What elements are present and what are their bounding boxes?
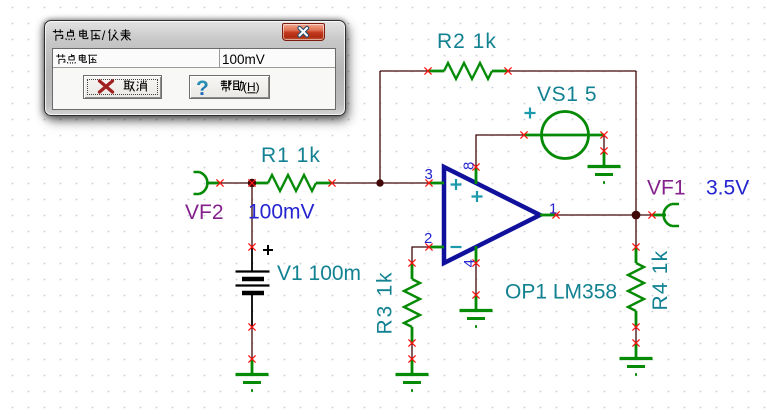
wire R4 to ground bbox=[635, 327, 637, 343]
op-amp U1 triangle bbox=[444, 167, 540, 263]
wire R3 to ground bbox=[411, 343, 413, 359]
svg-text:R3 1k: R3 1k bbox=[374, 271, 397, 335]
ground for VS1 bbox=[588, 151, 621, 183]
ground for V1 bbox=[236, 359, 269, 391]
probe VF1 bbox=[652, 204, 679, 226]
op-amp minus input mark bbox=[451, 246, 462, 248]
op-amp pin 3 stub bbox=[429, 182, 444, 185]
dialog content panel bbox=[52, 48, 336, 110]
svg-text:R1 1k: R1 1k bbox=[261, 144, 321, 167]
op-amp pin 8 stub bbox=[475, 167, 478, 184]
svg-text:R4 1k: R4 1k bbox=[649, 250, 672, 311]
wire op-amp pin 8 to VS1 bbox=[476, 135, 524, 167]
svg-text:VF1: VF1 bbox=[647, 177, 686, 200]
op-amp plus input mark bbox=[451, 179, 462, 190]
svg-text:3.5V: 3.5V bbox=[706, 177, 749, 200]
resistor R2 bbox=[428, 63, 508, 79]
wire node A down to V1 bbox=[251, 183, 253, 247]
junction node A bbox=[248, 179, 256, 187]
dialog table row bbox=[53, 49, 335, 68]
row label 节点电压 bbox=[56, 54, 65, 64]
svg-text:VS1 5: VS1 5 bbox=[537, 83, 597, 106]
help button 帮助(H) bbox=[189, 75, 270, 99]
ground for R4 bbox=[620, 343, 653, 375]
dialog row divider bbox=[219, 49, 220, 67]
junction node B bbox=[376, 179, 383, 186]
cancel icon red X bbox=[99, 81, 112, 92]
op-amp pin 1 stub bbox=[540, 214, 556, 217]
dialog window 节点电压/仪表 bbox=[44, 20, 346, 116]
svg-text:8: 8 bbox=[461, 162, 478, 170]
cancel button 取消 bbox=[83, 75, 162, 99]
battery V1 bbox=[236, 247, 270, 327]
wire R1 to node B bbox=[332, 182, 380, 184]
wire op-amp pin 4 to ground bbox=[475, 263, 477, 295]
cancel label 取消 bbox=[123, 81, 134, 91]
svg-text:/: / bbox=[101, 28, 105, 43]
wire right column down to output node C bbox=[635, 71, 637, 215]
wire feedback row to R2 left bbox=[380, 70, 428, 72]
wire op-amp pin 2 to R3 bbox=[412, 247, 428, 263]
svg-text:3: 3 bbox=[425, 166, 433, 183]
svg-text:(H): (H) bbox=[243, 80, 260, 94]
svg-text:100mV: 100mV bbox=[222, 52, 265, 67]
resistor R4 bbox=[628, 247, 644, 327]
wire op-amp output to VF1 bbox=[556, 214, 652, 216]
op-amp pin 4 stub bbox=[475, 246, 478, 263]
wire VS1 to ground bbox=[603, 135, 605, 151]
V1 plus sign bbox=[263, 245, 273, 255]
wire node B to op-amp pin 3 bbox=[380, 182, 429, 184]
VS1 plus sign bbox=[525, 108, 536, 119]
op-amp pin 2 stub bbox=[429, 246, 444, 249]
svg-text:4: 4 bbox=[461, 259, 478, 267]
probe VF2 bbox=[194, 172, 221, 194]
ground for op-amp pin 4 bbox=[460, 295, 493, 327]
dialog close button bbox=[282, 23, 325, 41]
wire node C down to R4 bbox=[635, 215, 637, 247]
ground for R3 bbox=[396, 359, 429, 391]
terminal x marks bbox=[216, 67, 655, 362]
title text 节点电压/仪表 bbox=[52, 29, 62, 40]
svg-text:V1 100m: V1 100m bbox=[277, 262, 361, 285]
wire V1 to ground bbox=[251, 327, 253, 359]
op-amp power plus mark bbox=[472, 191, 483, 202]
wire R2 right to right column bbox=[508, 70, 636, 72]
svg-text:2: 2 bbox=[424, 230, 432, 247]
svg-text:1: 1 bbox=[549, 201, 557, 218]
help label 帮助(H) bbox=[220, 80, 230, 92]
wire VF2 to node A bbox=[220, 182, 252, 184]
resistor R1 bbox=[252, 175, 332, 191]
wire node B up to feedback row bbox=[379, 71, 381, 183]
voltage source VS1 bbox=[524, 112, 604, 159]
svg-text:OP1 LM358: OP1 LM358 bbox=[505, 281, 617, 304]
svg-text:100mV: 100mV bbox=[248, 201, 315, 224]
resistor R3 bbox=[404, 263, 420, 343]
junction node C bbox=[632, 211, 641, 220]
svg-text:VF2: VF2 bbox=[185, 201, 224, 224]
svg-text:?: ? bbox=[196, 77, 209, 100]
svg-text:R2 1k: R2 1k bbox=[437, 30, 497, 53]
